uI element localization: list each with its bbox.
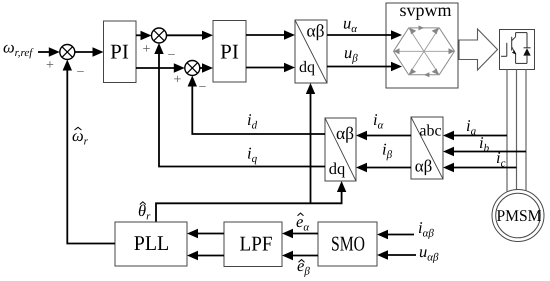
wire phase b line <box>516 70 518 191</box>
svg-text:αβ: αβ <box>306 21 324 41</box>
svg-text:+: + <box>46 58 54 73</box>
node B summing junction <box>152 28 167 43</box>
wire LPF to PLL bottom <box>187 251 224 260</box>
wire i_alpha Clarke to Park <box>356 131 411 140</box>
label theta_r hat <box>138 201 151 223</box>
block inverse Park dq to alphabeta <box>295 20 327 83</box>
svg-text:PMSM: PMSM <box>497 206 542 225</box>
wire i_q feedback <box>154 43 325 167</box>
block PLL <box>115 222 187 266</box>
wire SMO to LPF e_alpha <box>282 229 318 238</box>
wire node A to PI1 <box>75 47 104 56</box>
wire SMO to LPF e_beta <box>282 251 318 260</box>
wire i_alphabeta input to SMO <box>377 230 414 239</box>
svg-text:+: + <box>143 42 151 57</box>
wire i_beta Clarke to Park <box>356 163 411 172</box>
block PI2 current controller <box>213 21 246 83</box>
block Clarke abc to alphabeta <box>411 117 443 179</box>
wire phase a line <box>506 70 508 192</box>
label omega_r hat <box>72 126 89 148</box>
wire PI1 lower output to node C <box>136 63 185 72</box>
svg-text:+: + <box>174 73 182 88</box>
svg-text:PI: PI <box>220 40 239 64</box>
block svpwm <box>386 0 458 88</box>
wire LPF to PLL top <box>187 229 224 238</box>
svg-text:−: − <box>199 80 207 95</box>
wire u_beta to svpwm <box>327 62 402 71</box>
svg-text:dq: dq <box>299 59 315 76</box>
block Park alphabeta to dq <box>325 118 356 181</box>
wire i_d feedback <box>188 76 325 135</box>
svg-text:svpwm: svpwm <box>399 0 451 20</box>
svg-text:abc: abc <box>419 123 441 140</box>
wire tap i_c <box>443 163 517 172</box>
svg-text:−: − <box>77 65 85 80</box>
svg-text:−: − <box>168 48 176 63</box>
wire omega_ref to node A <box>38 47 60 56</box>
label e_beta hat <box>297 256 310 278</box>
block SMO <box>318 222 377 266</box>
block arrow svpwm to inverter <box>459 29 498 70</box>
motor PMSM <box>492 190 544 242</box>
wire theta_r net horizontal <box>156 192 342 222</box>
wire PI2 to dq-ab bottom <box>246 63 295 72</box>
node A summing junction <box>60 45 75 60</box>
wire tap i_b <box>443 147 526 156</box>
hexagon space vector <box>394 25 455 77</box>
wire tap i_a <box>443 131 507 140</box>
svg-text:αβ: αβ <box>415 157 433 176</box>
wire node C to PI2 <box>200 63 213 72</box>
block LPF <box>224 222 282 267</box>
wire theta branch to inverse Park <box>306 83 315 203</box>
wire u_alphabeta input to SMO <box>377 250 416 259</box>
svg-text:PI: PI <box>110 40 129 64</box>
wire arrow into Park bottom <box>337 181 346 192</box>
wire phase c line <box>525 70 527 192</box>
block PI1 speed controller <box>104 21 137 83</box>
wire node B to PI2 <box>167 31 214 40</box>
wire PI2 to dq-ab top <box>246 30 295 39</box>
svg-text:dq: dq <box>329 159 346 178</box>
inverter emitter arrow <box>512 50 516 54</box>
wire PI1 to node B <box>136 31 152 40</box>
svg-text:PLL: PLL <box>134 231 170 255</box>
block inverter <box>500 30 535 70</box>
wire u_alpha to svpwm <box>327 30 402 39</box>
label e_alpha hat <box>296 212 309 234</box>
svg-text:LPF: LPF <box>240 232 273 256</box>
svg-text:SMO: SMO <box>331 232 365 256</box>
wire omega_r hat feedback <box>63 60 115 244</box>
svg-text:αβ: αβ <box>336 123 354 143</box>
inverter IGBT symbol <box>501 33 530 64</box>
inverter diode <box>523 48 530 55</box>
node C summing junction <box>185 61 200 76</box>
